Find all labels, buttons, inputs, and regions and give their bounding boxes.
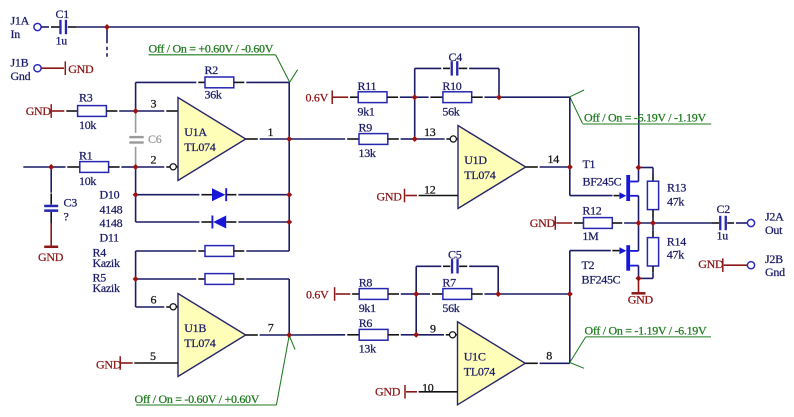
wire T2 gate: [570, 250, 620, 252]
wire: [68, 26, 77, 28]
wire gate column T1: [569, 97, 571, 195]
wire: [612, 222, 711, 224]
svg-text:GND: GND: [26, 104, 52, 118]
wire R2 row: [136, 81, 205, 83]
svg-text:4148: 4148: [100, 216, 123, 230]
svg-text:Gnd: Gnd: [11, 69, 31, 83]
svg-text:1u: 1u: [56, 33, 68, 47]
svg-text:GND: GND: [530, 216, 556, 230]
wire C5 loop left: [416, 266, 450, 294]
svg-text:C2: C2: [717, 202, 731, 216]
wire: [226, 194, 289, 196]
wire: [53, 166, 80, 168]
wire: [388, 138, 415, 140]
pin 2 bubble: [170, 164, 178, 170]
wire output 1: [246, 138, 290, 140]
pin 1 label: [268, 125, 274, 139]
svg-text:Off / On = -1.19V / -6.19V: Off / On = -1.19V / -6.19V: [585, 324, 707, 338]
svg-text:13: 13: [424, 125, 436, 139]
svg-text:9k1: 9k1: [359, 301, 376, 315]
wire R14 bottom: [639, 266, 654, 278]
diode labels: [100, 188, 123, 245]
pin 6 label: [151, 293, 157, 307]
wire C4 loop right: [459, 68, 499, 97]
resistor R5: [205, 274, 234, 285]
wire pin 2: [136, 166, 171, 168]
ground C3: [38, 212, 64, 264]
pin 6 bubble: [170, 304, 178, 310]
ground pin 12: [377, 189, 459, 204]
wire: [388, 334, 416, 336]
wire: [234, 250, 289, 252]
resistor R6: [359, 316, 388, 356]
svg-text:R2: R2: [205, 63, 219, 77]
wire pin 6: [136, 306, 171, 308]
svg-text:14: 14: [548, 152, 560, 166]
svg-text:1: 1: [268, 125, 274, 139]
wire R5 row: [136, 278, 205, 280]
svg-text:U1C: U1C: [464, 350, 486, 364]
wire: [387, 96, 415, 98]
svg-text:U1D: U1D: [464, 153, 487, 167]
wire: [472, 96, 499, 98]
node D10 left: [133, 192, 139, 198]
svg-text:47k: 47k: [667, 248, 684, 262]
wire: [712, 222, 720, 224]
svg-text:R13: R13: [667, 180, 686, 194]
resistor R13: [647, 180, 686, 209]
svg-text:36k: 36k: [205, 88, 222, 102]
wire C5 loop right: [459, 266, 498, 294]
wire R13 top: [639, 168, 654, 182]
svg-text:R11: R11: [358, 79, 377, 93]
wire C4 loop left: [415, 68, 450, 97]
ground J1B: [41, 61, 94, 76]
wire D10 row: [138, 194, 212, 196]
wire: [234, 279, 289, 335]
wire R8-R6 column: [415, 294, 417, 335]
annotation threshold U1A: [149, 41, 298, 82]
svg-text:0.6V: 0.6V: [306, 90, 329, 104]
node R6 right: [413, 332, 419, 338]
wire R11-R9 column: [414, 97, 416, 139]
svg-text:6: 6: [151, 293, 157, 307]
svg-text:J1A: J1A: [11, 14, 30, 28]
svg-text:BF245C: BF245C: [582, 273, 621, 287]
svg-text:GND: GND: [375, 385, 401, 399]
svg-text:GND: GND: [377, 189, 403, 203]
resistor R10: [442, 79, 471, 119]
node U1D output: [567, 164, 573, 170]
svg-text:D11: D11: [100, 231, 120, 245]
svg-text:56k: 56k: [442, 301, 459, 315]
wire feedback column: [135, 82, 137, 111]
wire pin 9: [416, 334, 450, 336]
svg-text:5: 5: [150, 349, 156, 363]
node T2 source: [636, 275, 642, 281]
wire gate column T2: [569, 251, 571, 364]
node U1B output: [286, 332, 292, 338]
svg-text:Gnd: Gnd: [765, 265, 785, 279]
wire: [415, 96, 443, 98]
ground R12: [530, 216, 584, 230]
svg-text:C6: C6: [148, 132, 162, 146]
svg-text:GND: GND: [68, 62, 94, 76]
node pin3: [133, 108, 139, 114]
svg-text:R6: R6: [359, 316, 373, 330]
connector J2B: [747, 252, 785, 279]
wire top rail: [77, 27, 639, 168]
resistor R8: [359, 275, 388, 315]
wire pin 3: [136, 110, 178, 112]
svg-text:Off / On = -0.60V / +0.60V: Off / On = -0.60V / +0.60V: [135, 392, 260, 406]
wire output 8: [525, 362, 570, 364]
wire: [234, 82, 289, 139]
svg-text:GND: GND: [96, 357, 122, 371]
ground T2: [628, 278, 654, 306]
wire to T2 gate column: [498, 293, 570, 295]
pin 2 label: [151, 153, 157, 167]
node D10 right: [286, 192, 292, 198]
wire R9 row: [289, 138, 359, 140]
svg-text:8: 8: [546, 348, 552, 362]
labels R4 R5: [93, 246, 120, 296]
svg-text:C3: C3: [64, 196, 78, 210]
wire to T1 gate column: [499, 96, 570, 98]
wire: [416, 293, 443, 295]
pin 13 label: [424, 125, 436, 139]
connector J1A: [11, 14, 42, 41]
svg-text:Out: Out: [765, 223, 783, 237]
svg-text:4148: 4148: [100, 202, 123, 216]
pin 14 label: [548, 152, 560, 166]
node R5 left: [133, 276, 139, 282]
diode D11: [212, 216, 226, 229]
pin 12 label: [424, 182, 436, 196]
svg-text:56k: 56k: [442, 104, 459, 118]
annotation threshold U1B: [135, 336, 296, 407]
wire: [472, 293, 499, 295]
wire output 14: [526, 166, 570, 168]
svg-text:C4: C4: [449, 50, 463, 64]
node R7 right: [495, 291, 501, 297]
svg-text:9k1: 9k1: [358, 104, 375, 118]
svg-text:R7: R7: [442, 275, 456, 289]
resistor R2: [205, 63, 234, 102]
capacitor C1: [56, 7, 70, 48]
capacitor C6: [129, 113, 161, 165]
svg-text:1u: 1u: [717, 228, 729, 242]
node D11 right: [286, 219, 292, 225]
pin 10 label: [422, 380, 434, 394]
svg-text:10k: 10k: [79, 118, 96, 132]
resistor R4: [205, 246, 234, 257]
svg-text:J2A: J2A: [765, 210, 784, 224]
svg-text:R1: R1: [79, 149, 93, 163]
wire: [41, 26, 59, 28]
pin 9 bubble: [450, 332, 458, 338]
svg-text:Kazik: Kazik: [93, 281, 120, 295]
capacitor C2: [717, 202, 731, 243]
node out row left: [636, 220, 642, 226]
svg-text:R3: R3: [79, 91, 93, 105]
pin 9 label: [430, 322, 436, 336]
ground pin 10: [375, 385, 458, 399]
svg-text:47k: 47k: [667, 194, 684, 208]
node R10 right: [496, 94, 502, 100]
pin 3 label: [151, 97, 157, 111]
svg-text:GND: GND: [698, 257, 724, 271]
resistor R1: [79, 149, 109, 188]
svg-text:TL074: TL074: [184, 140, 215, 154]
pin 8 label: [546, 348, 552, 362]
svg-text:T2: T2: [582, 258, 595, 272]
wire dashed stub: [106, 27, 108, 57]
resistor R7: [442, 275, 471, 315]
svg-text:R12: R12: [582, 203, 601, 217]
svg-text:1M: 1M: [582, 229, 599, 243]
svg-text:In: In: [11, 27, 21, 41]
op-amp U1C: [458, 322, 526, 405]
svg-text:C1: C1: [56, 7, 70, 21]
svg-text:R9: R9: [359, 121, 373, 135]
svg-text:Off / On = +0.60V / -0.60V: Off / On = +0.60V / -0.60V: [149, 41, 274, 55]
svg-text:BF245C: BF245C: [583, 175, 622, 189]
annotation threshold U1C: [570, 324, 711, 369]
svg-text:3: 3: [151, 97, 157, 111]
svg-text:TL074: TL074: [184, 336, 215, 350]
resistor R11: [358, 79, 388, 119]
resistor R14: [647, 235, 686, 266]
svg-text:10k: 10k: [79, 174, 96, 188]
node U1A output: [286, 136, 292, 142]
svg-text:GND: GND: [38, 250, 64, 264]
wire R4 row: [136, 250, 205, 252]
wire: [226, 221, 289, 223]
svg-text:13k: 13k: [359, 342, 376, 356]
svg-text:R10: R10: [442, 79, 461, 93]
svg-text:TL074: TL074: [464, 168, 495, 182]
svg-text:R14: R14: [667, 235, 686, 249]
svg-text:?: ?: [64, 210, 69, 224]
wire: [109, 166, 136, 168]
connector J2A: [747, 210, 784, 237]
capacitor C3: [44, 167, 77, 224]
capacitor C4: [449, 50, 463, 76]
node C3 junction: [48, 164, 54, 170]
svg-text:J2B: J2B: [765, 252, 783, 266]
wire diode column left: [135, 167, 137, 222]
transistor T2: [582, 223, 639, 287]
op-amp U1A: [178, 98, 246, 181]
transistor T1: [583, 157, 639, 223]
svg-text:12: 12: [424, 182, 436, 196]
node gate column: [567, 291, 573, 297]
node pin2: [133, 164, 139, 170]
svg-text:D10: D10: [100, 188, 120, 202]
node R8 right: [413, 291, 419, 297]
node R9 right: [412, 136, 418, 142]
svg-text:Kazik: Kazik: [93, 256, 120, 270]
svg-text:U1A: U1A: [184, 125, 207, 139]
ground J2B: [698, 257, 747, 272]
diode D10: [212, 188, 226, 201]
svg-text:TL074: TL074: [464, 364, 495, 378]
wire input: [23, 166, 51, 168]
node T1 drain: [636, 165, 642, 171]
net 0.6V top: [306, 90, 359, 104]
wire output column: [288, 139, 290, 251]
svg-text:10: 10: [422, 380, 434, 394]
svg-text:0.6V: 0.6V: [306, 287, 329, 301]
wire: [727, 222, 747, 224]
wire R14 top: [652, 223, 654, 238]
op-amp U1D: [458, 126, 526, 209]
svg-text:J1B: J1B: [11, 56, 29, 70]
wire: [388, 293, 416, 295]
wire R4-R5 left column: [135, 251, 137, 307]
resistor R9: [359, 121, 388, 160]
op-amp U1B: [178, 294, 246, 377]
resistor R12: [582, 203, 612, 242]
svg-text:13k: 13k: [359, 146, 376, 160]
svg-text:9: 9: [430, 322, 436, 336]
svg-text:2: 2: [151, 153, 157, 167]
wire R6 row: [289, 334, 359, 336]
wire pin 13: [415, 138, 451, 140]
pin 7 label: [268, 321, 274, 335]
wire output 7: [246, 334, 290, 336]
pin 5 label: [150, 349, 156, 363]
wire D11 row: [136, 221, 212, 223]
resistor R3: [78, 91, 107, 132]
ground pin 5: [96, 356, 178, 371]
svg-text:C5: C5: [448, 247, 462, 261]
node input junction: [104, 24, 110, 30]
wire R13 bottom: [652, 210, 654, 223]
svg-text:R8: R8: [359, 275, 373, 289]
svg-text:7: 7: [268, 321, 274, 335]
capacitor C5: [448, 247, 462, 273]
net 0.6V bottom: [306, 287, 359, 301]
node out row right: [650, 220, 656, 226]
svg-text:Off / On = -6.19V / -1.19V: Off / On = -6.19V / -1.19V: [584, 110, 706, 124]
svg-text:GND: GND: [628, 293, 654, 307]
wire: [106, 110, 135, 112]
ground R3: [26, 104, 78, 118]
node R11 right: [412, 94, 418, 100]
connector J1B: [11, 56, 42, 84]
annotation threshold U1D: [570, 90, 711, 124]
pin 13 bubble: [450, 136, 458, 142]
wire T1 gate: [570, 195, 620, 197]
svg-text:T1: T1: [583, 157, 596, 171]
svg-text:U1B: U1B: [184, 321, 206, 335]
